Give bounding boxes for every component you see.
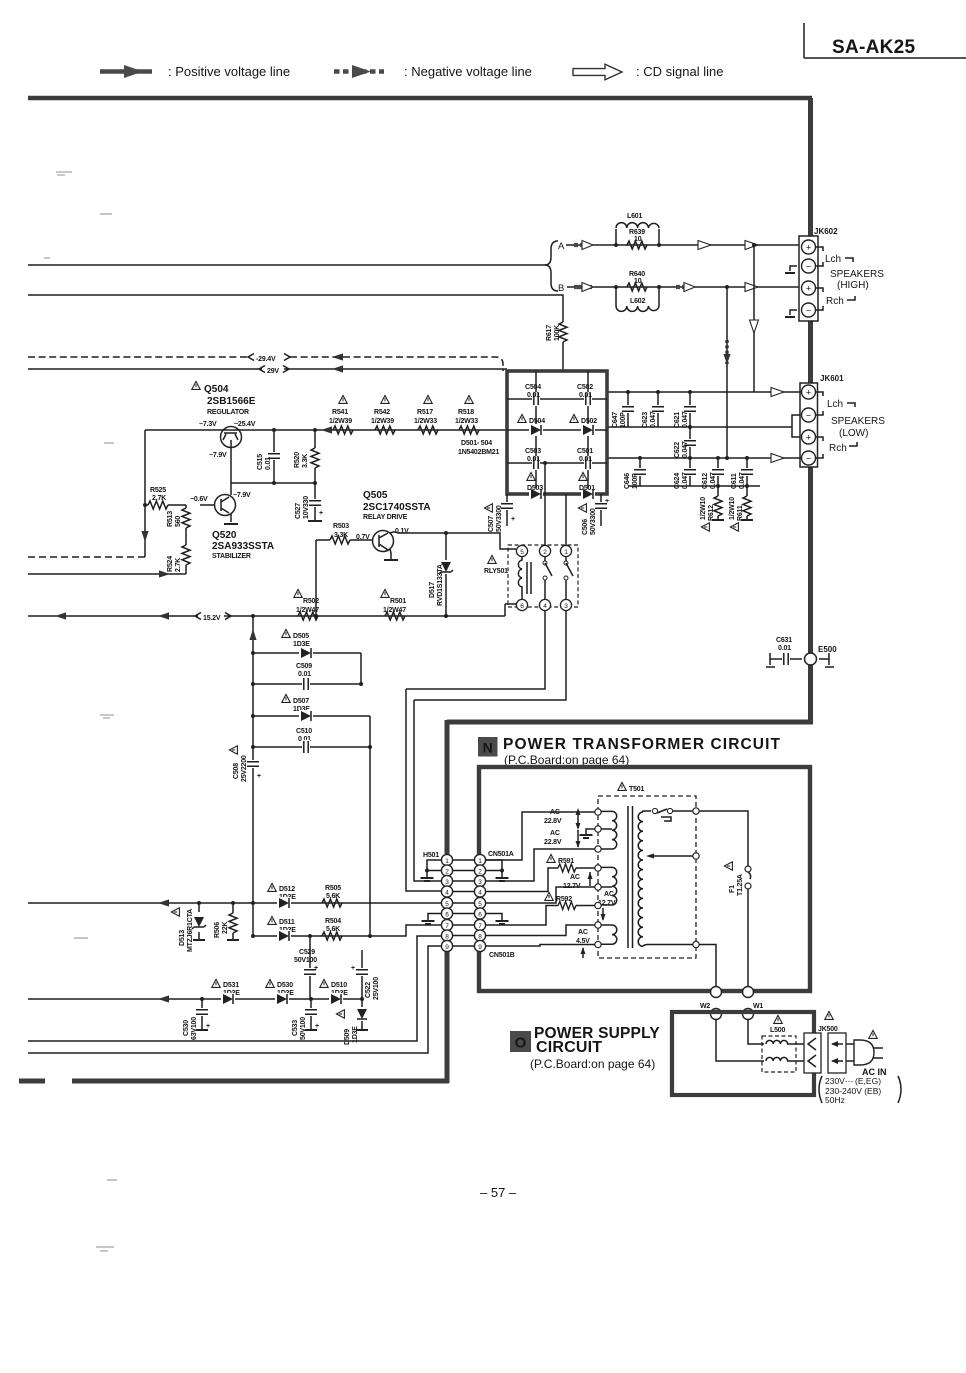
wire B line y=287 [567, 286, 801, 288]
svg-text:6: 6 [445, 911, 449, 918]
arrow on 15.2V line [158, 612, 169, 619]
svg-text:R504: R504 [325, 918, 341, 925]
wire relay pin1 up into rectifier box [565, 494, 567, 545]
svg-text:H501: H501 [423, 852, 439, 859]
diode D502 [570, 414, 597, 436]
svg-text:D503: D503 [527, 485, 543, 492]
svg-text:0.01: 0.01 [527, 456, 540, 463]
connector CN501A [488, 851, 514, 858]
svg-text:R542: R542 [374, 409, 390, 416]
svg-text:AC: AC [550, 830, 560, 837]
svg-text:R541: R541 [332, 409, 348, 416]
terminal H501 pin6 [441, 908, 452, 919]
node junction A line x=754 [752, 243, 756, 247]
wire H501 pin1 tie to ground [427, 860, 441, 878]
relay pin 4 [539, 599, 550, 610]
terminal H501 pin9 [441, 940, 452, 951]
relay pin 3 [560, 599, 571, 610]
capacitor C533 electrolytic [292, 997, 319, 1040]
wire: right thick border line [808, 98, 813, 722]
svg-text:7: 7 [445, 923, 449, 930]
svg-text:+: + [605, 498, 609, 505]
svg-text:560: 560 [175, 516, 182, 527]
wire y=483 link [231, 482, 315, 484]
svg-text:D509: D509 [344, 1029, 351, 1045]
inductor secondary winding 3 [601, 925, 617, 944]
svg-text:1N5402BM21: 1N5402BM21 [458, 449, 499, 456]
svg-text:8: 8 [445, 933, 449, 940]
svg-text:+: + [315, 1023, 319, 1030]
relay pin 6 [516, 599, 527, 610]
svg-text:50Hz: 50Hz [825, 1095, 845, 1105]
terminal H501 pin1 [441, 854, 452, 865]
node Lch label JK601 [816, 392, 823, 415]
svg-text:50V100: 50V100 [300, 1017, 307, 1040]
svg-text:B: B [558, 283, 564, 294]
inductor L602 parallel loop [616, 287, 659, 311]
arrow AC22.8 span upper [577, 810, 579, 847]
resistor R612 [700, 486, 724, 531]
terminal CN501A pin5 [474, 897, 485, 908]
svg-text:C527: C527 [295, 503, 302, 519]
diode D530 [266, 979, 294, 1005]
capacitor C631 [766, 637, 802, 667]
arrow CD signal on A line near JK602 [745, 241, 758, 250]
resistor R591 [547, 854, 576, 872]
ground CN501A pin6 [496, 921, 509, 924]
svg-text:R501: R501 [390, 598, 406, 605]
node W1 junction circles [743, 987, 764, 1020]
node N section marker [478, 737, 498, 757]
svg-text:1/2W10: 1/2W10 [729, 497, 736, 520]
ground H501 pins 1-2 [421, 878, 434, 881]
svg-text:3.3K: 3.3K [302, 454, 309, 468]
svg-text:2: 2 [543, 549, 547, 556]
ground mark left of JK602 minus Lch [790, 266, 797, 271]
wire rectifier row y=399 [507, 398, 607, 400]
arrow up on rail x=253 [249, 629, 256, 640]
wire Q505 collector to relay pin 5 [390, 532, 516, 549]
diode D503 [527, 472, 543, 500]
svg-text:: CD signal line: : CD signal line [636, 64, 723, 79]
arrow voltage on B line [574, 283, 593, 292]
connector JK602 body [799, 236, 818, 321]
resistor R542 [371, 395, 395, 434]
svg-text:2.7K: 2.7K [152, 495, 166, 502]
svg-text:Rch: Rch [826, 296, 844, 307]
node T501 dashed outline [598, 796, 696, 958]
wire vertical x=727 from B line down to JK601 [726, 287, 728, 458]
svg-text:C503: C503 [525, 448, 541, 455]
svg-text:C621: C621 [674, 412, 681, 428]
svg-text:R513: R513 [167, 511, 174, 527]
svg-text:~7.3V: ~7.3V [199, 421, 217, 428]
svg-text:R640: R640 [629, 271, 645, 278]
resistor R525 [143, 487, 186, 509]
terminal H501 pin3 [441, 875, 452, 886]
capacitor C507 electrolytic [484, 494, 515, 532]
diode D513 zener [171, 901, 206, 952]
ground at transformer tap 829 [586, 829, 595, 835]
wire line y=392 to JK601 [607, 391, 801, 393]
diode D509 [336, 997, 368, 1045]
svg-text:D531: D531 [223, 982, 239, 989]
wire line y=936 [253, 925, 441, 936]
wire CN501A pin8 to tap 925 [486, 925, 595, 936]
wire line y=1053 to H501 pin9 [28, 946, 441, 1053]
svg-text:STABILIZER: STABILIZER [212, 553, 251, 560]
svg-text:2: 2 [445, 868, 449, 875]
svg-text:5: 5 [445, 901, 449, 908]
capacitor C509 [251, 663, 363, 691]
svg-text:22K: 22K [222, 922, 229, 934]
svg-text:R639: R639 [629, 229, 645, 236]
svg-text:(LOW): (LOW) [839, 428, 868, 439]
resistor R520 [294, 428, 319, 485]
svg-text:100K: 100K [554, 325, 561, 341]
svg-text:22.8V: 22.8V [544, 839, 562, 846]
wire from primary top tap to F1 [699, 811, 748, 866]
wire relay pin2 up into rectifier box [544, 463, 546, 545]
wire A line y=245 [566, 244, 801, 246]
svg-text:L601: L601 [627, 213, 642, 220]
svg-text:1/2W33: 1/2W33 [414, 418, 437, 425]
wire bus x=414 down to H501 pin3 [414, 700, 441, 881]
svg-text:-29.4V: -29.4V [256, 356, 276, 363]
svg-text:CN501A: CN501A [488, 851, 514, 858]
svg-text:2SA933SSTA: 2SA933SSTA [212, 541, 274, 552]
svg-text:+: + [351, 965, 355, 972]
wire from primary bottom tap to W2 [699, 945, 716, 993]
transformer T501 [595, 782, 699, 958]
svg-text:R506: R506 [214, 922, 221, 938]
arrow on 15.2V line left [55, 612, 66, 619]
svg-text:12.7V: 12.7V [563, 883, 581, 890]
svg-text:CN501B: CN501B [489, 952, 515, 959]
wire CN501A pin5 to tap 887 [486, 887, 595, 903]
arrow on -29.4V line [332, 353, 343, 360]
wire rectifier row y=463 [507, 462, 607, 464]
resistor R640 [614, 271, 661, 291]
svg-text:0.047: 0.047 [710, 472, 717, 489]
svg-text:+: + [257, 773, 261, 780]
svg-text:2SC1740SSTA: 2SC1740SSTA [363, 502, 431, 513]
inductor L601 parallel loop [616, 213, 659, 245]
svg-text:1/2W33: 1/2W33 [455, 418, 478, 425]
terminal H501 pin5 [441, 897, 452, 908]
svg-text:50V100: 50V100 [294, 957, 317, 964]
node Rch label JK602 [816, 288, 823, 310]
node Lch label JK602 [816, 247, 823, 266]
svg-text:8: 8 [478, 933, 482, 940]
svg-text:−0.6V: −0.6V [190, 496, 208, 503]
svg-text:−: − [806, 262, 811, 272]
node secondary tap circles [595, 809, 601, 948]
relay contact 2-4 [544, 557, 546, 599]
svg-text:F1: F1 [729, 885, 736, 893]
ground CN501A pin2 [496, 878, 509, 881]
node SA-AK25 title box [804, 23, 966, 58]
resistor R501 [381, 589, 406, 620]
svg-text:RVD1S133TA: RVD1S133TA [437, 564, 444, 606]
svg-text:R502: R502 [303, 598, 319, 605]
diode D511 [268, 916, 296, 942]
svg-text:C631: C631 [776, 637, 792, 644]
svg-text:4.5V: 4.5V [576, 938, 590, 945]
transistor Q504 [192, 381, 256, 459]
svg-text:W2: W2 [700, 1003, 710, 1010]
svg-text:REGULATOR: REGULATOR [207, 409, 249, 416]
wire rectifier column x=536 [535, 371, 537, 494]
capacitor C515 [257, 428, 281, 485]
wire W1 into box down to L500 upper [748, 1019, 764, 1044]
node E500 right stub [819, 653, 834, 667]
terminal JK601 pin + Lch [802, 385, 816, 399]
wire: thick border / H501 cable vertical x=447 [445, 720, 450, 1083]
svg-text:(HIGH): (HIGH) [837, 280, 869, 291]
node W2 junction circles [700, 987, 722, 1020]
node rectifier block box [507, 371, 607, 494]
svg-text:R505: R505 [325, 885, 341, 892]
svg-text:R611: R611 [737, 505, 744, 521]
node AC voltage ratings [819, 1076, 901, 1105]
ground mark left of JK602 minus Rch [790, 310, 797, 315]
svg-text:D510: D510 [331, 982, 347, 989]
node brace splitting A and B [545, 241, 558, 291]
svg-text:0.01: 0.01 [579, 456, 592, 463]
svg-text:D511: D511 [279, 919, 295, 926]
wire CN501A pin9 to tap 944 [486, 945, 595, 947]
svg-text:(P.C.Board:on page 64): (P.C.Board:on page 64) [530, 1057, 655, 1071]
diode D517 [429, 531, 453, 618]
svg-text:SPEAKERS: SPEAKERS [831, 416, 885, 427]
arrow dashed down on x=727 [723, 340, 730, 364]
node junction x=727 on y=458 [725, 456, 729, 460]
svg-text:N: N [483, 740, 493, 756]
capacitor C621 [674, 390, 697, 429]
svg-text:O: O [515, 1035, 527, 1052]
terminal JK602 pin + Rch [802, 281, 816, 295]
arrow voltage on A line [574, 241, 593, 250]
svg-text:AC: AC [604, 891, 614, 898]
wire vertical x=754 from A line down to JK601 [753, 245, 755, 392]
svg-text:Lch: Lch [827, 399, 843, 410]
terminal JK601 pin + Rch [802, 430, 816, 444]
svg-text:+: + [206, 1023, 210, 1030]
arrow down on x=145 [141, 531, 148, 542]
svg-text:C612: C612 [702, 473, 709, 489]
svg-text:AC: AC [550, 809, 560, 816]
resistor R524 [167, 528, 190, 574]
svg-text:R518: R518 [458, 409, 474, 416]
svg-text:+: + [806, 388, 811, 398]
wire: bottom border small left segment [19, 1079, 45, 1084]
terminal CN501A pin8 [474, 930, 485, 941]
svg-text:JK500: JK500 [818, 1026, 838, 1033]
svg-text:5: 5 [520, 549, 524, 556]
arrow on 29V line [332, 365, 343, 372]
capacitor C646 [624, 456, 647, 489]
resistor R592 [545, 892, 576, 909]
svg-text:Q505: Q505 [363, 490, 388, 501]
capacitor C623 [642, 390, 665, 428]
svg-text:1: 1 [478, 858, 482, 865]
diode D512 [268, 883, 296, 909]
resistor R617 [546, 322, 567, 371]
terminal JK601 pin - Rch [802, 451, 816, 465]
svg-text:D517: D517 [429, 582, 436, 598]
arrow CD signal on B line near JK602 [745, 283, 758, 292]
svg-text:230V⋯ (E,EG): 230V⋯ (E,EG) [825, 1076, 881, 1086]
diode D531 [212, 979, 240, 1005]
svg-text:1: 1 [445, 858, 449, 865]
wire right rail x=370 down [369, 716, 371, 936]
legend CD signal line arrow [573, 64, 723, 80]
svg-text:1/2W10: 1/2W10 [700, 497, 707, 520]
svg-text:0.1V: 0.1V [395, 528, 409, 535]
svg-text:A: A [558, 241, 565, 252]
svg-text:1/2W39: 1/2W39 [329, 418, 352, 425]
wire feed line to brace from page left [28, 264, 546, 266]
capacitor C522 electrolytic [351, 950, 380, 1000]
svg-text:C533: C533 [292, 1020, 299, 1036]
relay RLY501 [484, 545, 578, 611]
svg-text:25V2200: 25V2200 [241, 755, 248, 782]
connector H501 [423, 852, 439, 859]
wire: bottom thick border line [72, 1079, 449, 1084]
capacitor C510 [251, 728, 372, 754]
svg-text:C509: C509 [296, 663, 312, 670]
svg-text:POWER TRANSFORMER CIRCUIT: POWER TRANSFORMER CIRCUIT [503, 736, 781, 753]
transistor Q505 [356, 490, 431, 560]
arrow open down on x=754 [750, 320, 759, 333]
capacitor C622 [674, 427, 697, 458]
svg-text:C623: C623 [642, 412, 649, 428]
capacitor C611 [731, 456, 754, 489]
capacitor C624 [674, 456, 697, 489]
svg-text:SA-AK25: SA-AK25 [832, 37, 916, 58]
svg-text:1: 1 [564, 549, 568, 556]
resistor R639 [614, 229, 661, 249]
svg-text:R503: R503 [333, 523, 349, 530]
relay coil [518, 557, 522, 599]
terminal JK602 pin - Rch [802, 303, 816, 317]
svg-text:C507: C507 [488, 516, 495, 532]
svg-text:L602: L602 [630, 298, 645, 305]
terminal H501 pin7 [441, 919, 452, 930]
node primary tap circles [693, 808, 699, 948]
svg-text:MTZJ6R1CTA: MTZJ6R1CTA [187, 909, 194, 952]
svg-text:0.01: 0.01 [778, 645, 791, 652]
node -29.4V label [248, 354, 290, 364]
wire H501 pin6 tie to ground [428, 914, 441, 922]
svg-text:Rch: Rch [829, 443, 847, 454]
resistor R504 [322, 918, 342, 940]
inductor secondary winding 1 [601, 811, 617, 849]
svg-text:D504: D504 [529, 418, 545, 425]
wire vertical x=145 from rail down [144, 430, 146, 557]
svg-text:+: + [319, 510, 323, 517]
svg-text:D512: D512 [279, 886, 295, 893]
svg-text:T501: T501 [629, 786, 644, 793]
svg-text:5.6K: 5.6K [326, 926, 340, 933]
wire line y=574 [28, 573, 186, 575]
svg-text:0.01: 0.01 [265, 457, 272, 470]
svg-text:4: 4 [543, 603, 547, 610]
svg-text:D505: D505 [293, 633, 309, 640]
legend positive voltage line arrow [100, 64, 290, 79]
wire bus x=406 down to H501 pin4 [406, 689, 441, 891]
svg-text:−7.9V: −7.9V [209, 452, 227, 459]
inductor primary winding [638, 812, 643, 946]
svg-text:C501: C501 [577, 448, 593, 455]
svg-text:Q520: Q520 [212, 530, 237, 541]
svg-text:C504: C504 [525, 384, 541, 391]
svg-text:5.6K: 5.6K [326, 893, 340, 900]
resistor R541 [329, 395, 353, 434]
resistor R502 [294, 589, 319, 620]
svg-text:L500: L500 [770, 1027, 785, 1034]
terminal H501 pin8 [441, 930, 452, 941]
relay contact 1-3 [565, 557, 567, 599]
wire bracket linking JK601 minus Lch and plus Rch [785, 415, 800, 437]
svg-text:R525: R525 [150, 487, 166, 494]
node power supply box [672, 1012, 814, 1095]
svg-text:6: 6 [520, 603, 524, 610]
connector JK500 [804, 1011, 846, 1073]
svg-text:3: 3 [564, 603, 568, 610]
svg-text:C510: C510 [296, 728, 312, 735]
svg-text:25V100: 25V100 [373, 977, 380, 1000]
svg-text:10V330: 10V330 [303, 496, 310, 519]
wire CN501A pin3 to tap 849 [486, 849, 595, 881]
wire relay pin3 down then left [414, 611, 566, 700]
svg-text:−7.9V: −7.9V [233, 492, 251, 499]
svg-text:3: 3 [445, 879, 449, 886]
svg-text:2SB1566E: 2SB1566E [207, 396, 256, 407]
arrow on y=574 [159, 570, 170, 577]
wire primary mid tap [650, 855, 693, 857]
svg-text:C624: C624 [674, 473, 681, 489]
wire right rail x=361 [360, 653, 362, 684]
svg-text:5: 5 [478, 901, 482, 908]
relay pin 1 [560, 545, 571, 556]
svg-text:50V3300: 50V3300 [590, 508, 597, 535]
wire line y=999 [28, 998, 362, 1000]
svg-text:D501: D501 [579, 485, 595, 492]
capacitor C530 electrolytic [183, 997, 210, 1040]
svg-text:+: + [806, 243, 811, 253]
capacitor C527 electrolytic [295, 483, 323, 521]
diode D501 [579, 472, 595, 500]
svg-text:T1.25A: T1.25A [737, 874, 744, 896]
svg-text:−: − [806, 411, 811, 421]
svg-text:100P: 100P [620, 412, 627, 428]
svg-text:Lch: Lch [825, 254, 841, 265]
relay pin 5 [516, 545, 527, 556]
wire -29.4V dashed line [28, 357, 503, 371]
arrow left on rail y=430 [321, 426, 332, 433]
legend negative voltage line arrow [334, 64, 532, 79]
svg-text:2: 2 [478, 868, 482, 875]
capacitor C529 electrolytic [294, 934, 318, 999]
svg-text:R592: R592 [556, 896, 572, 903]
diode D507 [251, 694, 370, 722]
diode D505 [251, 629, 361, 659]
svg-text:22.8V: 22.8V [544, 818, 562, 825]
arrow on y=999 [158, 995, 169, 1002]
svg-text:D513: D513 [179, 930, 186, 946]
